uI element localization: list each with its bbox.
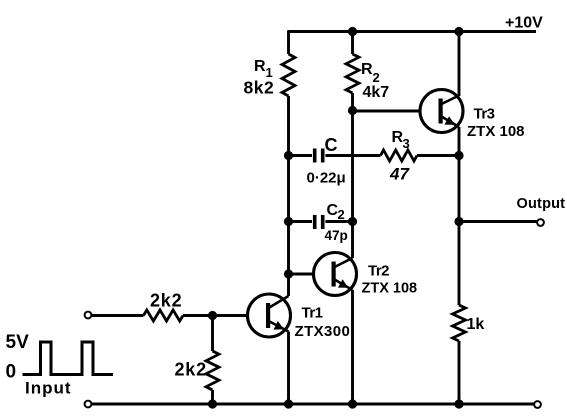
wire R2 bottom to node bbox=[351, 93, 354, 111]
svg-text:2k2: 2k2 bbox=[150, 291, 182, 311]
node output junction bbox=[454, 217, 463, 226]
svg-text:3: 3 bbox=[403, 136, 410, 151]
wire C2 row: node to C2 left plate bbox=[289, 220, 313, 223]
svg-text:R: R bbox=[254, 58, 266, 75]
svg-text:47p: 47p bbox=[325, 228, 348, 243]
node bottom rail / 1k bbox=[454, 399, 463, 408]
resistor 2k2 divider bbox=[206, 351, 219, 390]
resistor 2k2 series bbox=[144, 310, 184, 321]
svg-text:2: 2 bbox=[373, 70, 380, 85]
wire Tr2 emitter to bottom rail bbox=[351, 290, 354, 404]
terminal input bottom open circle bbox=[85, 401, 92, 408]
svg-text:Tr3: Tr3 bbox=[474, 106, 495, 123]
wire Tr3 emitter to R3 node bbox=[458, 127, 461, 156]
terminal input top open circle bbox=[85, 312, 92, 319]
svg-text:1k: 1k bbox=[467, 316, 485, 333]
svg-text:C: C bbox=[325, 135, 338, 155]
svg-text:4k7: 4k7 bbox=[363, 84, 390, 101]
wire Tr3 base bbox=[353, 110, 421, 113]
svg-text:ZTX 108: ZTX 108 bbox=[362, 281, 418, 297]
resistor R3 bbox=[381, 150, 418, 161]
resistor R1 bbox=[282, 54, 295, 96]
resistor 1k bbox=[453, 305, 466, 341]
svg-text:47: 47 bbox=[389, 165, 410, 184]
svg-text:ZTX300: ZTX300 bbox=[295, 323, 351, 340]
node R3 / right rail bbox=[454, 151, 463, 160]
svg-text:Tr2: Tr2 bbox=[368, 263, 389, 280]
wire left vertical: C node to C2 node bbox=[287, 156, 290, 222]
svg-text:5V: 5V bbox=[6, 332, 30, 353]
svg-text:0·22μ: 0·22μ bbox=[307, 170, 346, 187]
wire right rail: output node to 1k bbox=[458, 222, 461, 306]
wire left vertical: node to Tr1 collector bbox=[287, 274, 290, 296]
svg-text:Output: Output bbox=[517, 196, 566, 212]
svg-text:+10V: +10V bbox=[505, 15, 543, 32]
wire input to 2k2 bbox=[92, 314, 144, 317]
transistor Q Tr2 bbox=[314, 253, 357, 296]
resistor R2 bbox=[346, 54, 359, 93]
capacitor C bbox=[315, 149, 323, 163]
wire middle vertical: rail to R2 top bbox=[351, 32, 354, 55]
svg-text:ZTX 108: ZTX 108 bbox=[467, 123, 525, 140]
wire right rail: R3 node to output node bbox=[458, 156, 461, 222]
wire right vertical: rail to Tr3 collector bbox=[458, 32, 461, 97]
terminal output open circle bbox=[537, 219, 544, 226]
svg-text:Input: Input bbox=[25, 379, 72, 398]
capacitor C2 bbox=[315, 215, 323, 229]
svg-text:8k2: 8k2 bbox=[244, 78, 275, 98]
wire C row: node to C left plate bbox=[289, 154, 313, 157]
svg-text:0: 0 bbox=[6, 362, 17, 383]
node C row left bbox=[284, 151, 293, 160]
transistor Q Tr3 bbox=[420, 90, 463, 133]
node bottom rail / Tr1 emitter bbox=[284, 399, 293, 408]
transistor Q Tr1 bbox=[248, 294, 291, 337]
wire output bbox=[459, 220, 537, 223]
wire C right plate to R3 bbox=[325, 154, 380, 157]
wire 2k2 to Tr1 base bbox=[183, 314, 248, 317]
wire left vertical: C2 node to Tr2-base node bbox=[287, 222, 290, 275]
wire left vertical: R1 bottom to C node bbox=[287, 96, 290, 156]
node top rail / R2 bbox=[348, 27, 357, 36]
wire 1k to bottom rail bbox=[458, 341, 461, 404]
wire R3 right to rail bbox=[417, 154, 459, 157]
wire bottom rail bbox=[92, 403, 535, 406]
wire top supply rail bbox=[289, 30, 537, 33]
svg-text:Tr1: Tr1 bbox=[302, 305, 323, 322]
node R2 bottom / Tr3 base bbox=[348, 106, 357, 115]
node base / 2k2 divider bbox=[208, 311, 217, 320]
wire Tr1 emitter to bottom rail bbox=[287, 332, 290, 405]
svg-text:2: 2 bbox=[338, 207, 345, 222]
wire left vertical: rail corner to R1 top bbox=[287, 30, 290, 54]
waveform input pulse symbol bbox=[23, 342, 114, 375]
node bottom rail / Tr2 emitter bbox=[348, 399, 357, 408]
node top rail / Tr3 bbox=[454, 27, 463, 36]
node bottom rail / 2k2 bbox=[208, 399, 217, 408]
node Tr2 base / Tr1 collector bbox=[284, 269, 293, 278]
wire node down to 2k2 divider bbox=[211, 316, 214, 352]
terminal bottom right open circle bbox=[534, 401, 541, 408]
svg-text:2k2: 2k2 bbox=[175, 360, 207, 380]
wire middle vertical: C2 node to Tr2 collector bbox=[351, 222, 354, 259]
wire middle vertical: node down through C row to C2 node bbox=[351, 111, 354, 222]
node C2 left bbox=[284, 217, 293, 226]
wire C2 right plate to middle node bbox=[325, 220, 352, 223]
wire Tr2 base bbox=[289, 273, 314, 276]
wire 2k2 divider to bottom rail bbox=[211, 390, 214, 404]
svg-text:R: R bbox=[361, 61, 373, 78]
node C2 right / middle wire bbox=[348, 217, 357, 226]
